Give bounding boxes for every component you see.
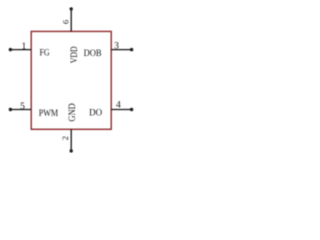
svg-text:4: 4 [116,100,121,111]
svg-text:1: 1 [22,41,27,52]
svg-text:5: 5 [20,101,25,112]
svg-text:PWM: PWM [39,109,59,119]
svg-text:DO: DO [89,109,102,119]
svg-text:2: 2 [60,136,70,140]
svg-text:DOB: DOB [84,49,102,59]
svg-text:VDD: VDD [70,46,80,63]
svg-text:GND: GND [68,103,78,122]
svg-text:3: 3 [114,41,119,52]
svg-text:FG: FG [40,48,50,58]
svg-text:6: 6 [60,19,70,24]
